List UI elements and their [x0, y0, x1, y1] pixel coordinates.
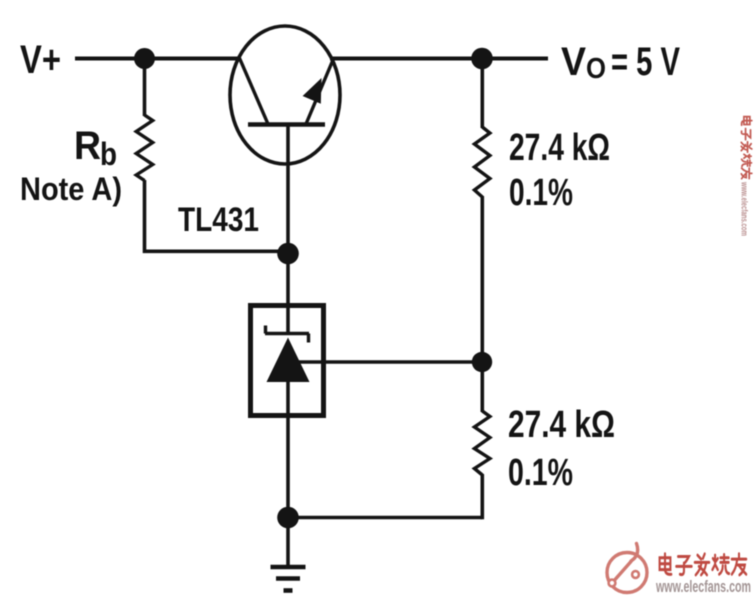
svg-text:= 5 V: = 5 V	[611, 40, 680, 84]
transistor Q1 right (emitter) slant	[306, 58, 334, 125]
svg-text:0.1%: 0.1%	[509, 172, 573, 214]
watermark text bottom right	[660, 554, 747, 575]
transistor Q1 body	[230, 26, 340, 164]
svg-text:0.1%: 0.1%	[508, 452, 573, 494]
wire Vo node to R1	[480, 59, 484, 129]
label Rb	[74, 124, 117, 172]
TL431 U1 box	[251, 306, 324, 416]
wire bottom node to divider	[288, 516, 482, 520]
wire TL431 anode down to ground node	[286, 418, 290, 517]
svg-text:V+: V+	[20, 38, 61, 82]
transistor Q1 base bar	[248, 122, 325, 126]
TL431 U1 zener triangle	[267, 338, 310, 383]
wire ground stem	[286, 518, 290, 568]
transistor Q1 left (collector) slant	[239, 57, 268, 124]
svg-text:www.elecfans.com: www.elecfans.com	[740, 181, 750, 236]
resistor Rb	[136, 115, 153, 181]
resistor R1	[474, 127, 490, 197]
wire R1 to divider node	[480, 196, 484, 362]
svg-text:b: b	[100, 136, 117, 172]
wire TL431 reference to divider node	[296, 360, 482, 364]
node divider midpoint junction	[472, 352, 492, 372]
watermark logo bottom right	[607, 544, 647, 593]
svg-text:V: V	[561, 40, 586, 84]
label Vo = 5 V	[561, 40, 680, 85]
svg-text:TL431: TL431	[178, 201, 259, 239]
wire node to TL431 box	[286, 253, 290, 334]
svg-text:www.elecfans.com: www.elecfans.com	[655, 577, 751, 596]
label R1 value 27.4 kOhm	[509, 127, 610, 169]
wire TL431 anode through box	[286, 380, 290, 418]
node TL431 cathode junction	[277, 243, 299, 265]
ground	[271, 567, 306, 591]
wire node to Rb	[143, 59, 147, 117]
label Note A)	[20, 171, 122, 207]
svg-text:R: R	[74, 124, 101, 168]
label V+	[20, 38, 61, 82]
node anode / divider bottom junction	[277, 507, 299, 529]
wire R2 to bottom node	[480, 474, 484, 519]
wire transistor base down to node	[286, 125, 290, 254]
svg-text:O: O	[586, 53, 606, 85]
svg-text:27.4 kΩ: 27.4 kΩ	[509, 127, 610, 169]
svg-text:Note A): Note A)	[20, 171, 122, 207]
wire Rb to TL431 cathode node	[145, 180, 289, 251]
transistor Q1 emitter arrow	[303, 78, 322, 104]
label R2 tolerance 0.1%	[508, 452, 573, 494]
watermark right edge	[740, 117, 752, 236]
TL431 U1 cathode bar	[265, 326, 309, 343]
label R2 value 27.4 kOhm	[508, 404, 615, 446]
label R1 tolerance 0.1%	[509, 172, 573, 214]
resistor R2	[474, 411, 490, 475]
wire transistor to output node	[330, 57, 548, 61]
wire divider node to R2	[480, 362, 484, 412]
node V+ / Rb junction	[134, 48, 155, 69]
wire V+ to transistor	[75, 57, 241, 61]
svg-text:27.4 kΩ: 27.4 kΩ	[508, 404, 615, 446]
label TL431	[178, 201, 259, 239]
node Vo junction	[471, 48, 493, 70]
